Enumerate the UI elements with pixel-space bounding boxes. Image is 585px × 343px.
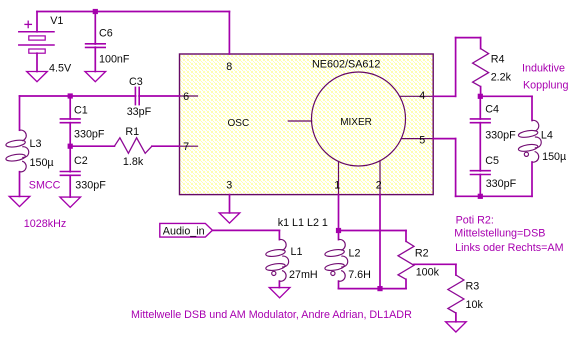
svg-text:100k: 100k (416, 267, 440, 279)
svg-text:4: 4 (419, 90, 425, 102)
svg-text:10k: 10k (466, 299, 484, 311)
svg-text:L2: L2 (349, 248, 361, 260)
svg-text:Links oder Rechts=AM: Links oder Rechts=AM (455, 242, 563, 254)
svg-text:7: 7 (183, 141, 189, 153)
svg-text:OSC: OSC (228, 118, 250, 129)
svg-text:2: 2 (376, 180, 382, 192)
svg-text:L1: L1 (291, 246, 303, 258)
svg-text:SMCC: SMCC (29, 179, 61, 191)
svg-text:330pF: 330pF (486, 178, 517, 190)
svg-text:k1 L1 L2 1: k1 L1 L2 1 (278, 217, 328, 229)
svg-text:R3: R3 (466, 280, 480, 292)
svg-text:5: 5 (419, 135, 425, 147)
svg-text:1: 1 (334, 180, 340, 192)
svg-text:L3: L3 (30, 138, 42, 150)
svg-text:7.6H: 7.6H (348, 269, 371, 281)
svg-text:C6: C6 (99, 27, 113, 39)
svg-text:330pF: 330pF (74, 128, 105, 140)
svg-text:100nF: 100nF (99, 54, 130, 66)
svg-text:1.8k: 1.8k (123, 156, 144, 168)
svg-text:Mittelstellung=DSB: Mittelstellung=DSB (454, 228, 545, 240)
svg-text:Poti R2:: Poti R2: (456, 214, 494, 226)
svg-text:2.2k: 2.2k (491, 71, 512, 83)
svg-text:L4: L4 (541, 130, 553, 142)
svg-text:4.5V: 4.5V (49, 63, 72, 75)
svg-text:330pF: 330pF (485, 130, 516, 142)
svg-text:V1: V1 (50, 15, 63, 27)
svg-text:Induktive: Induktive (522, 63, 565, 75)
svg-text:C1: C1 (74, 105, 88, 117)
svg-text:3: 3 (226, 179, 232, 191)
svg-text:6: 6 (183, 91, 189, 103)
svg-text:Kopplung: Kopplung (523, 80, 568, 92)
svg-text:C2: C2 (74, 155, 88, 167)
svg-text:R4: R4 (491, 54, 505, 66)
svg-text:MIXER: MIXER (340, 117, 372, 128)
svg-text:C5: C5 (485, 155, 499, 167)
svg-text:27mH: 27mH (289, 269, 318, 281)
svg-text:Audio_in: Audio_in (163, 226, 205, 238)
svg-text:150µ: 150µ (30, 157, 54, 169)
svg-text:33pF: 33pF (127, 106, 152, 118)
svg-text:C4: C4 (485, 103, 499, 115)
svg-text:C3: C3 (129, 76, 143, 88)
svg-text:R1: R1 (125, 126, 139, 138)
svg-text:NE602/SA612: NE602/SA612 (312, 59, 380, 71)
svg-text:R2: R2 (415, 248, 429, 260)
svg-text:Mittelwelle DSB und AM Modulat: Mittelwelle DSB und AM Modulator, Andre … (131, 309, 412, 321)
svg-text:8: 8 (226, 61, 232, 73)
svg-text:1028kHz: 1028kHz (24, 218, 66, 230)
svg-text:150µ: 150µ (542, 151, 566, 163)
svg-text:330pF: 330pF (75, 179, 106, 191)
